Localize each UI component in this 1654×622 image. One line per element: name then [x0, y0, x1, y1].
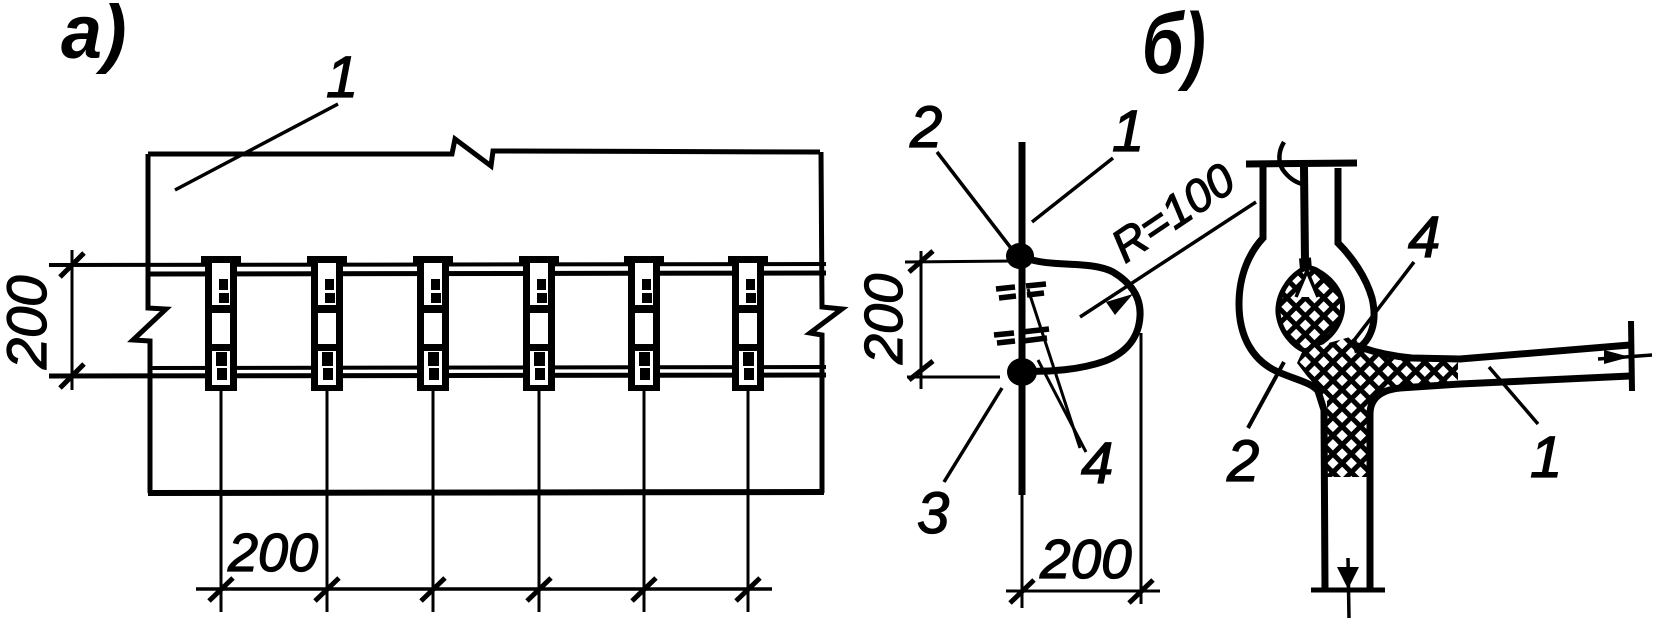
- svg-text:200: 200: [1039, 528, 1132, 590]
- leader line of label 1: [175, 104, 338, 190]
- dimension tick at x=433: [421, 578, 445, 601]
- extension line below strap x=433: [432, 391, 435, 612]
- R arrowhead: [1106, 294, 1133, 315]
- leader 1: [1032, 158, 1113, 222]
- left dimension 200 of detail b: [905, 251, 1014, 389]
- svg-text:4: 4: [1081, 431, 1113, 496]
- leader 4: [1352, 262, 1414, 343]
- extension line below strap x=327: [326, 391, 329, 612]
- strap clamp at x=433: [413, 256, 453, 391]
- bottom weld blob: [1007, 358, 1037, 386]
- svg-text:3: 3: [917, 481, 949, 546]
- hatched junction: [1297, 337, 1458, 477]
- bottom dimension 200 of detail b: [1006, 333, 1160, 604]
- sheet top edge with break: [148, 139, 820, 166]
- rail bottom upper line: [148, 367, 826, 368]
- strap clamp at x=221: [201, 256, 241, 391]
- dimension tick at x=221: [209, 578, 233, 601]
- leader 2: [937, 152, 1014, 252]
- bottom flow arrow: [1348, 558, 1349, 618]
- strap clamp at x=539: [519, 256, 559, 391]
- extension line below strap x=539: [538, 391, 541, 612]
- R leader line: [1080, 202, 1256, 317]
- strap clamp at x=327: [307, 256, 347, 391]
- leader 3: [944, 388, 1002, 482]
- svg-text:1: 1: [326, 45, 358, 110]
- svg-text:1: 1: [1530, 425, 1562, 490]
- dimension tick at x=539: [527, 578, 551, 601]
- right branch flow arrow: [1598, 355, 1652, 359]
- outer sheet left line into bulb and down branch: [1239, 167, 1325, 588]
- cut squiggle mark: [1279, 142, 1302, 184]
- sheet edge vertical line: [1019, 142, 1026, 495]
- svg-text:2: 2: [1226, 429, 1259, 494]
- rail top upper line: [49, 264, 826, 265]
- bottom dimension 200 of detail a: [196, 587, 772, 591]
- sheet outline rectangle with break marks: [133, 139, 842, 493]
- extension line below strap x=748: [747, 391, 750, 612]
- sheet right edge with break: [810, 152, 842, 493]
- bottom branch end bar: [1311, 588, 1385, 593]
- svg-text:200: 200: [227, 523, 318, 583]
- svg-text:б): б): [1142, 0, 1206, 92]
- left dimension 200 of detail a: [60, 250, 84, 390]
- dimension tick at x=644: [632, 578, 656, 601]
- right sheet line into bulb right wall: [1338, 168, 1374, 350]
- white notch at drop top: [1296, 268, 1318, 297]
- dimension tick at x=748: [736, 578, 760, 601]
- strap clamp at x=748: [728, 256, 768, 391]
- rail top lower line: [148, 273, 826, 274]
- hatched drop core: [1278, 268, 1343, 351]
- svg-text:a): a): [61, 0, 127, 74]
- down branch right line into bottom branch line: [1370, 376, 1630, 588]
- extension of sheet line to dimension: [1021, 495, 1024, 608]
- loop of the seam R=100: [1026, 258, 1140, 371]
- sheet left edge with break: [133, 154, 166, 493]
- weld tick marks lower: [994, 329, 1049, 343]
- svg-text:2: 2: [909, 95, 942, 160]
- sheet bottom edge: [148, 492, 824, 493]
- right branch top line: [1352, 344, 1630, 359]
- leaders 4: [1028, 289, 1080, 448]
- dimension tick at x=327: [315, 578, 339, 601]
- svg-text:4: 4: [1408, 205, 1440, 270]
- leader 1: [1489, 367, 1538, 424]
- rail bottom lower line: [49, 375, 826, 376]
- top bar of sheets: [1246, 163, 1357, 164]
- svg-text:1: 1: [1112, 99, 1144, 164]
- top weld blob: [1006, 243, 1034, 269]
- svg-text:200: 200: [854, 274, 914, 365]
- svg-text:200: 200: [0, 276, 58, 370]
- weld tick marks upper: [996, 284, 1046, 298]
- strap clamp at x=644: [624, 256, 664, 391]
- extension line below strap x=644: [643, 391, 646, 612]
- leader 2: [1248, 362, 1284, 428]
- right branch end bar: [1631, 321, 1632, 391]
- middle sheet line into drop: [1304, 167, 1305, 262]
- extension line below strap x=221: [220, 391, 223, 612]
